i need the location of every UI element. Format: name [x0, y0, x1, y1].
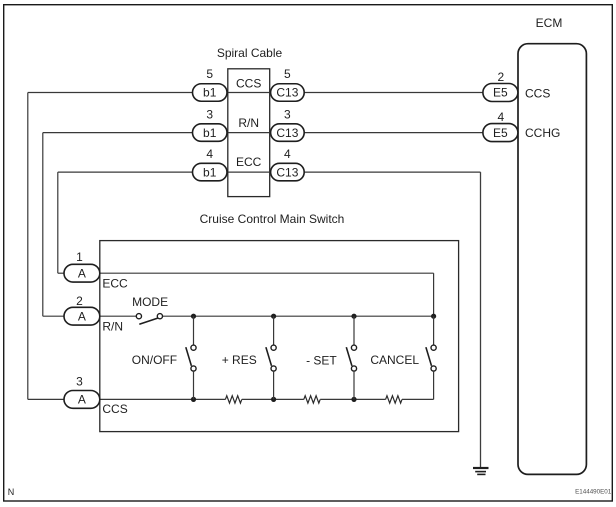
wire CANCEL branch lower — [433, 371, 435, 399]
svg-text:A: A — [78, 266, 86, 280]
junction: rail / -SET branch — [351, 314, 356, 319]
wire +RES branch upper — [273, 316, 275, 345]
junction: bottom rail / -SET branch — [351, 397, 356, 402]
cruise control main switch block — [100, 241, 459, 432]
svg-text:R/N: R/N — [238, 116, 259, 130]
svg-text:C13: C13 — [276, 86, 298, 100]
ECM block — [518, 44, 586, 475]
wire R/N: through spiral cable — [227, 132, 271, 134]
junction: rail / ON-OFF branch — [191, 314, 196, 319]
wire R/N row: connector A2 to MODE switch — [100, 315, 137, 317]
wire ECC: left bus vertical — [57, 172, 59, 273]
switch ON/OFF — [186, 345, 196, 371]
switch MODE — [136, 314, 162, 325]
wire -SET branch lower — [353, 371, 355, 399]
svg-text:5: 5 — [206, 67, 213, 81]
wire ECC: left bus to spiral connector b1 — [58, 171, 193, 173]
svg-text:CANCEL: CANCEL — [370, 353, 419, 367]
wire R/N: left bus to spiral connector b1 — [43, 132, 193, 134]
connector A pin 2 (R/N) — [64, 307, 100, 325]
svg-text:CCHG: CCHG — [525, 126, 560, 140]
svg-text:MODE: MODE — [132, 295, 168, 309]
wire ECC: through spiral cable — [227, 171, 271, 173]
connector C13 pin 5 (CCS) — [271, 84, 305, 102]
wire ON/OFF branch lower — [193, 371, 195, 399]
wire CANCEL branch upper — [433, 316, 435, 345]
wire CCS: spiral C13 to ECM E5 — [304, 92, 483, 94]
connector A pin 1 (ECC) — [64, 264, 100, 282]
wire CCS bottom rail segment 3 — [320, 398, 385, 400]
svg-text:C13: C13 — [276, 126, 298, 140]
junction: rail / +RES branch — [271, 314, 276, 319]
svg-text:b1: b1 — [203, 126, 217, 140]
svg-text:Spiral Cable: Spiral Cable — [217, 46, 283, 60]
wire CCHG: spiral C13 to ECM E5 — [304, 132, 483, 134]
connector E5 pin 2 (CCS) — [483, 84, 518, 102]
svg-text:CCS: CCS — [102, 402, 127, 416]
resistor R2 — [304, 396, 320, 403]
resistor R3 — [386, 396, 402, 403]
connector b1 pin 3 (R/N) — [193, 124, 228, 142]
switch -SET — [346, 345, 356, 371]
svg-text:CCS: CCS — [236, 77, 261, 91]
label: CCS / R/N / ECC inside spiral cable — [236, 77, 262, 170]
svg-text:R/N: R/N — [102, 320, 123, 334]
wire CCS: left bus to switch connector A3 — [28, 398, 65, 400]
connector A pin 3 (CCS) — [64, 391, 100, 409]
svg-text:E5: E5 — [493, 126, 508, 140]
svg-text:b1: b1 — [203, 86, 217, 100]
connector C13 pin 3 (R/N) — [271, 124, 305, 142]
svg-text:ECM: ECM — [536, 16, 563, 30]
wire CCS bottom rail segment 2 — [242, 398, 304, 400]
wire CCS: through spiral cable — [227, 92, 271, 94]
svg-text:2: 2 — [498, 70, 505, 84]
svg-text:ON/OFF: ON/OFF — [132, 353, 177, 367]
svg-text:E5: E5 — [493, 86, 508, 100]
wire CCS: left bus vertical — [27, 93, 29, 400]
svg-text:E144490E01: E144490E01 — [575, 488, 612, 495]
ground — [473, 468, 489, 474]
junction: bottom rail / +RES branch — [271, 397, 276, 402]
resistor R1 — [225, 396, 241, 403]
svg-text:- SET: - SET — [306, 353, 337, 367]
wire ECC: left bus to switch connector A1 — [58, 272, 65, 274]
wire ECC drop to rail — [433, 273, 435, 316]
svg-text:b1: b1 — [203, 165, 217, 179]
switch CANCEL — [426, 345, 436, 371]
wire ECC: spiral C13 to ground drop — [304, 171, 480, 173]
svg-text:ECC: ECC — [236, 155, 262, 169]
wire ECC: ground drop vertical — [480, 172, 482, 467]
wire rail: MODE switch to CANCEL branch — [162, 315, 433, 317]
svg-text:ECC: ECC — [102, 276, 128, 290]
wire CCS bottom rail segment 4 — [402, 398, 434, 400]
svg-text:A: A — [78, 309, 86, 323]
svg-text:4: 4 — [498, 110, 505, 124]
junction: bottom rail / ON-OFF branch — [191, 397, 196, 402]
connector C13 pin 4 (ECC) — [271, 163, 305, 181]
svg-text:C13: C13 — [276, 165, 298, 179]
wire CCS: left bus to spiral connector b1 — [28, 92, 193, 94]
svg-text:A: A — [78, 393, 86, 407]
svg-text:+ RES: + RES — [222, 353, 257, 367]
wire ON/OFF branch upper — [193, 316, 195, 345]
connector E5 pin 4 (CCHG) — [483, 124, 518, 142]
svg-text:N: N — [8, 487, 15, 497]
svg-text:3: 3 — [76, 374, 83, 388]
svg-text:4: 4 — [206, 147, 213, 161]
connector b1 pin 5 (CCS) — [193, 84, 228, 102]
wire -SET branch upper — [353, 316, 355, 345]
svg-text:4: 4 — [284, 147, 291, 161]
wire +RES branch lower — [273, 371, 275, 399]
svg-text:CCS: CCS — [525, 87, 550, 101]
svg-text:1: 1 — [76, 250, 83, 264]
wire R/N: left bus to switch connector A2 — [43, 315, 65, 317]
wire ECC row inside switch block — [100, 272, 434, 274]
svg-text:3: 3 — [206, 107, 213, 121]
svg-text:3: 3 — [284, 107, 291, 121]
svg-text:2: 2 — [76, 294, 83, 308]
svg-text:Cruise Control Main Switch: Cruise Control Main Switch — [200, 212, 345, 226]
switch +RES — [266, 345, 276, 371]
junction: rail / CANCEL branch / ECC drop — [431, 314, 436, 319]
connector b1 pin 4 (ECC) — [193, 163, 228, 181]
spiral cable block — [228, 69, 270, 197]
wire CCS bottom rail segment 1 — [100, 398, 226, 400]
wire R/N: left bus vertical — [42, 133, 44, 317]
svg-text:5: 5 — [284, 67, 291, 81]
